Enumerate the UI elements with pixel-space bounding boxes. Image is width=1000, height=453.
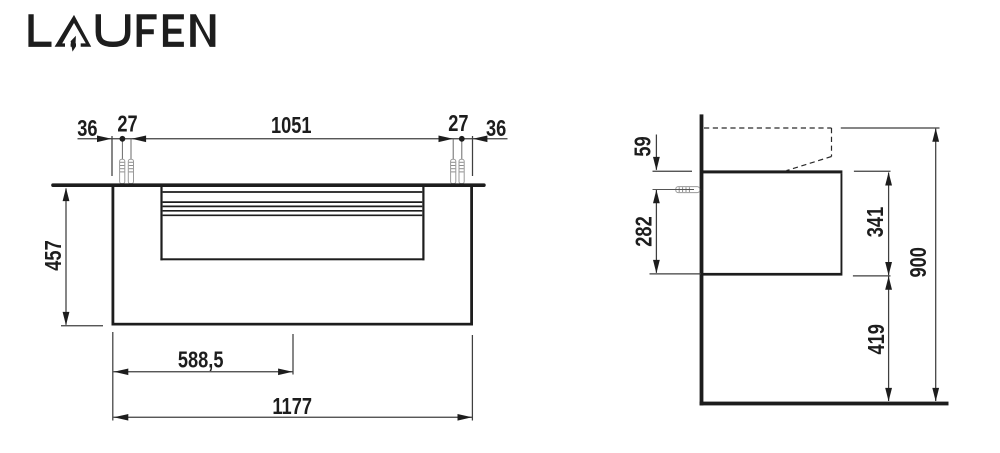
svg-text:457: 457	[41, 240, 66, 270]
svg-text:1051: 1051	[271, 113, 312, 138]
svg-text:282: 282	[632, 216, 657, 246]
svg-text:1177: 1177	[272, 394, 312, 419]
svg-text:588,5: 588,5	[178, 348, 224, 373]
svg-text:36: 36	[77, 116, 97, 141]
svg-text:27: 27	[117, 112, 137, 137]
svg-text:419: 419	[864, 324, 889, 354]
svg-text:27: 27	[448, 111, 468, 136]
svg-text:59: 59	[631, 136, 656, 156]
svg-text:900: 900	[906, 247, 931, 277]
svg-text:36: 36	[486, 116, 506, 141]
svg-text:341: 341	[863, 207, 888, 237]
